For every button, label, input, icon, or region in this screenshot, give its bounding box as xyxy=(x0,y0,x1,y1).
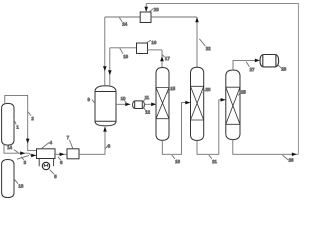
arrow into box 23 top xyxy=(144,7,148,12)
wire line 12 (pump 11 to column 15) xyxy=(144,103,156,105)
label 15 xyxy=(167,90,170,93)
label 11 xyxy=(143,99,145,101)
condenser 28 xyxy=(260,55,279,67)
svg-text:1: 1 xyxy=(16,125,19,130)
arrow into column 20 xyxy=(185,101,190,105)
wire line 10 (vessel 9 to pump 11) xyxy=(116,103,130,105)
label 24 xyxy=(119,18,122,22)
wire box 16 right to riser 17 xyxy=(148,49,163,51)
box 7 xyxy=(67,149,79,159)
label 18 xyxy=(172,155,175,159)
label 28 xyxy=(278,65,281,68)
arrow on line 19 riser xyxy=(108,70,112,75)
arrow on line 24 riser xyxy=(103,66,107,71)
arrow on line 6 xyxy=(60,153,65,157)
tank 13 xyxy=(2,160,14,198)
label 23 xyxy=(150,9,153,12)
tank 1 xyxy=(2,103,14,145)
arrow into pump 11 xyxy=(125,103,130,107)
label 10 xyxy=(125,101,127,104)
arrow into column 25 xyxy=(221,98,226,102)
arrow into condenser 28 xyxy=(255,59,260,63)
label 12 xyxy=(144,107,146,111)
arrow on riser 22 xyxy=(195,17,199,22)
svg-text:12: 12 xyxy=(145,110,150,115)
arrow on line 26 xyxy=(292,153,297,157)
svg-text:6: 6 xyxy=(60,160,63,165)
arrow into vessel 9 bottom xyxy=(103,127,107,132)
svg-text:9: 9 xyxy=(88,97,91,102)
box 23 xyxy=(140,12,151,23)
svg-text:27: 27 xyxy=(250,67,255,72)
wire line 19 horizontal xyxy=(110,47,137,49)
svg-text:25: 25 xyxy=(241,89,246,94)
label 27 xyxy=(246,62,249,67)
label 22 xyxy=(199,39,205,46)
arrow into column 15 xyxy=(151,103,156,107)
column 25 xyxy=(226,70,240,140)
svg-text:2: 2 xyxy=(31,116,34,121)
label 1 xyxy=(14,119,17,124)
svg-text:24: 24 xyxy=(122,21,127,26)
svg-text:4: 4 xyxy=(50,140,53,145)
label 25 xyxy=(238,92,240,96)
arrow on line 2 xyxy=(26,139,30,144)
column 15 packing X xyxy=(156,88,169,119)
svg-text:18: 18 xyxy=(175,159,180,164)
svg-text:21: 21 xyxy=(212,159,217,164)
label 7 xyxy=(69,140,72,149)
pump 5 bracket xyxy=(39,159,53,167)
label 6 xyxy=(58,157,61,161)
svg-text:28: 28 xyxy=(281,66,286,71)
svg-text:23: 23 xyxy=(154,7,159,12)
label 2 xyxy=(28,112,31,116)
vessel 9 xyxy=(95,86,116,126)
svg-text:14: 14 xyxy=(7,145,12,150)
svg-text:13: 13 xyxy=(18,184,23,189)
wire line 6 (box 4 to box 7) xyxy=(55,153,67,155)
label 4 xyxy=(41,142,49,148)
pump 11 xyxy=(133,101,145,109)
arrow into box 4 xyxy=(31,154,36,158)
svg-text:20: 20 xyxy=(206,87,211,92)
wire line 14 (tank1 bottom to box 4) xyxy=(4,144,37,156)
column 20 packing X xyxy=(191,86,204,120)
mixer box 4 xyxy=(37,149,56,159)
wire riser 17 (column 15 top) xyxy=(161,50,163,68)
label 13 xyxy=(14,179,18,184)
label 17 xyxy=(162,55,164,57)
wire line 19 riser into vessel 9 xyxy=(109,48,111,86)
pump 5 inner mark xyxy=(44,164,48,167)
label 14 xyxy=(14,150,19,153)
pump 5 circle xyxy=(42,162,49,169)
box 16 xyxy=(137,43,148,54)
svg-text:10: 10 xyxy=(121,96,126,101)
label 3 xyxy=(21,157,24,160)
label 8 xyxy=(105,145,108,149)
label 5 xyxy=(50,170,54,175)
svg-text:8: 8 xyxy=(108,144,111,149)
svg-text:7: 7 xyxy=(67,135,70,140)
wire line 21 (column 20 bottom to column 25) xyxy=(197,100,226,155)
wire line 26 (column 25 bottom recycle) xyxy=(233,140,299,155)
wire top recycle line 26 xyxy=(146,4,298,155)
svg-text:17: 17 xyxy=(165,56,170,61)
svg-text:26: 26 xyxy=(289,158,294,163)
wire line 3 (tank13 to box 4) xyxy=(17,155,29,159)
label 19 xyxy=(120,48,123,54)
svg-text:22: 22 xyxy=(206,46,211,51)
svg-text:5: 5 xyxy=(54,174,57,179)
column 20 xyxy=(191,67,204,140)
svg-text:11: 11 xyxy=(145,95,150,100)
wire feed into box 23 top xyxy=(145,4,147,13)
label 16 xyxy=(147,40,151,42)
wire line 2 (tank1 top to box 4) xyxy=(5,95,37,150)
svg-text:19: 19 xyxy=(123,54,128,59)
label 21 xyxy=(209,155,212,159)
column 25 packing X xyxy=(226,87,240,124)
wire line 18 (column 15 bottom to column 20) xyxy=(162,103,190,155)
wire line 8 (box 7 to vessel 9 bottom) xyxy=(79,127,105,154)
wire line 24 horizontal xyxy=(105,16,140,18)
svg-text:16: 16 xyxy=(151,40,156,45)
arrow on riser 17 xyxy=(160,56,164,61)
wire box 23 right to riser 22 xyxy=(151,16,197,18)
svg-text:3: 3 xyxy=(24,160,27,165)
column 15 xyxy=(156,68,169,141)
label 20 xyxy=(203,90,206,93)
svg-text:15: 15 xyxy=(170,86,175,91)
label 26 xyxy=(282,155,288,160)
wire line 24 riser into vessel 9 xyxy=(104,17,106,87)
wire riser 22 (column 20 top to box 23 line) xyxy=(196,17,198,67)
wire line 27 (column 25 top to condenser 28) xyxy=(233,60,258,70)
label 9 xyxy=(92,100,95,104)
arrow on line 14 xyxy=(20,151,25,155)
